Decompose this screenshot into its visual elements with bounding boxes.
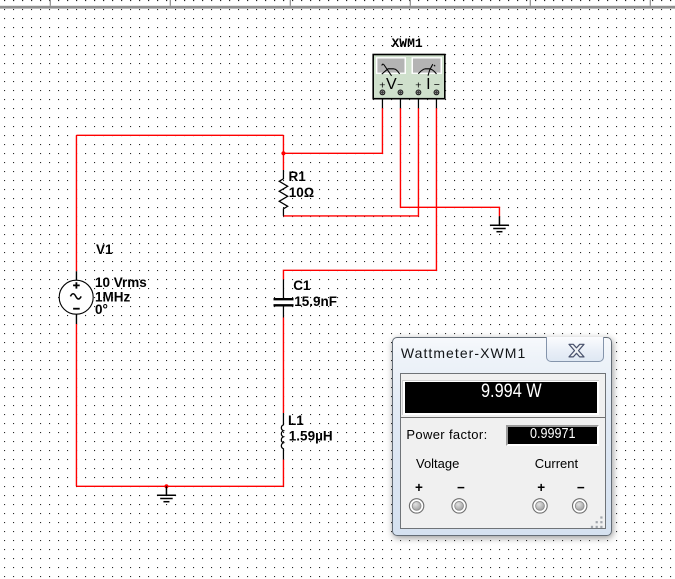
- toolbar divider bar: [0, 6, 675, 9]
- power factor label: [406, 428, 487, 441]
- svg-text:L1: L1: [288, 413, 304, 428]
- svg-text:C1: C1: [293, 278, 311, 293]
- ground (wattmeter V-): [490, 216, 509, 231]
- inductor L1: [281, 413, 283, 460]
- wattmeter current meter needle: [418, 64, 436, 76]
- power factor box: [506, 425, 599, 446]
- wire R1 top from node A: [282, 135, 284, 170]
- wattmeter dialog window: [392, 337, 613, 536]
- wattmeter +V- marking: [379, 76, 403, 93]
- ruler tick row (top strip): [0, 0, 675, 6]
- svg-text:−: −: [434, 79, 440, 91]
- svg-text:0°: 0°: [95, 302, 108, 317]
- svg-text:+: +: [379, 80, 385, 92]
- capacitor C1: [274, 279, 294, 317]
- wattmeter terminal pins: [380, 90, 439, 95]
- wire wattmeter I- to C1: [283, 108, 436, 279]
- svg-text:15.9nF: 15.9nF: [294, 294, 337, 309]
- wire left vertical to V1: [75, 135, 77, 271]
- terminal indicator sockets: [401, 374, 604, 528]
- wattmeter XWM1 body: [373, 55, 445, 99]
- svg-text:V1: V1: [96, 242, 113, 257]
- wire node A to wattmeter V+: [283, 108, 382, 153]
- wire bottom rail: [76, 485, 283, 487]
- resistor R1: [279, 170, 288, 216]
- svg-text:10Ω: 10Ω: [289, 185, 314, 200]
- wattmeter +I- marking: [415, 76, 440, 93]
- voltage group label: [416, 457, 459, 470]
- junction node ground rail: [164, 484, 168, 488]
- ground (bottom rail): [157, 486, 176, 501]
- svg-text:R1: R1: [289, 169, 307, 184]
- wire V1 bottom to ground rail: [75, 324, 77, 486]
- junction node A: [281, 151, 285, 155]
- wire C1 to L1: [282, 318, 284, 414]
- dialog close button: [546, 337, 604, 362]
- svg-text:1.59µH: 1.59µH: [289, 428, 333, 443]
- source V1: [59, 271, 93, 324]
- wire L1 to bottom rail: [282, 460, 284, 487]
- close X glyph: [569, 345, 584, 358]
- power readout 9.994 W: [481, 382, 542, 401]
- svg-text:−: −: [397, 79, 403, 91]
- resize grip: [591, 516, 603, 528]
- power display white frame: [402, 380, 599, 416]
- svg-text:V: V: [386, 76, 397, 93]
- current group label: [535, 457, 578, 470]
- wattmeter XWM1 leads: [382, 95, 436, 109]
- wire wattmeter V- to ground: [400, 108, 499, 216]
- power display sunken frame: [401, 374, 604, 418]
- power display black screen: [405, 382, 598, 413]
- svg-text:I: I: [426, 76, 430, 93]
- power factor readout: [530, 427, 575, 441]
- svg-text:+: +: [415, 80, 421, 92]
- svg-text:10 Vrms: 10 Vrms: [95, 275, 147, 290]
- svg-text:XWM1: XWM1: [392, 36, 423, 51]
- dialog client area: [400, 373, 605, 529]
- wire R1 bottom to wattmeter I+: [283, 108, 418, 216]
- wire top horizontal V1 to R1: [76, 134, 283, 136]
- terminal polarity labels: [401, 480, 604, 482]
- dialog title: [401, 345, 526, 361]
- wattmeter voltage meter needle: [382, 64, 400, 76]
